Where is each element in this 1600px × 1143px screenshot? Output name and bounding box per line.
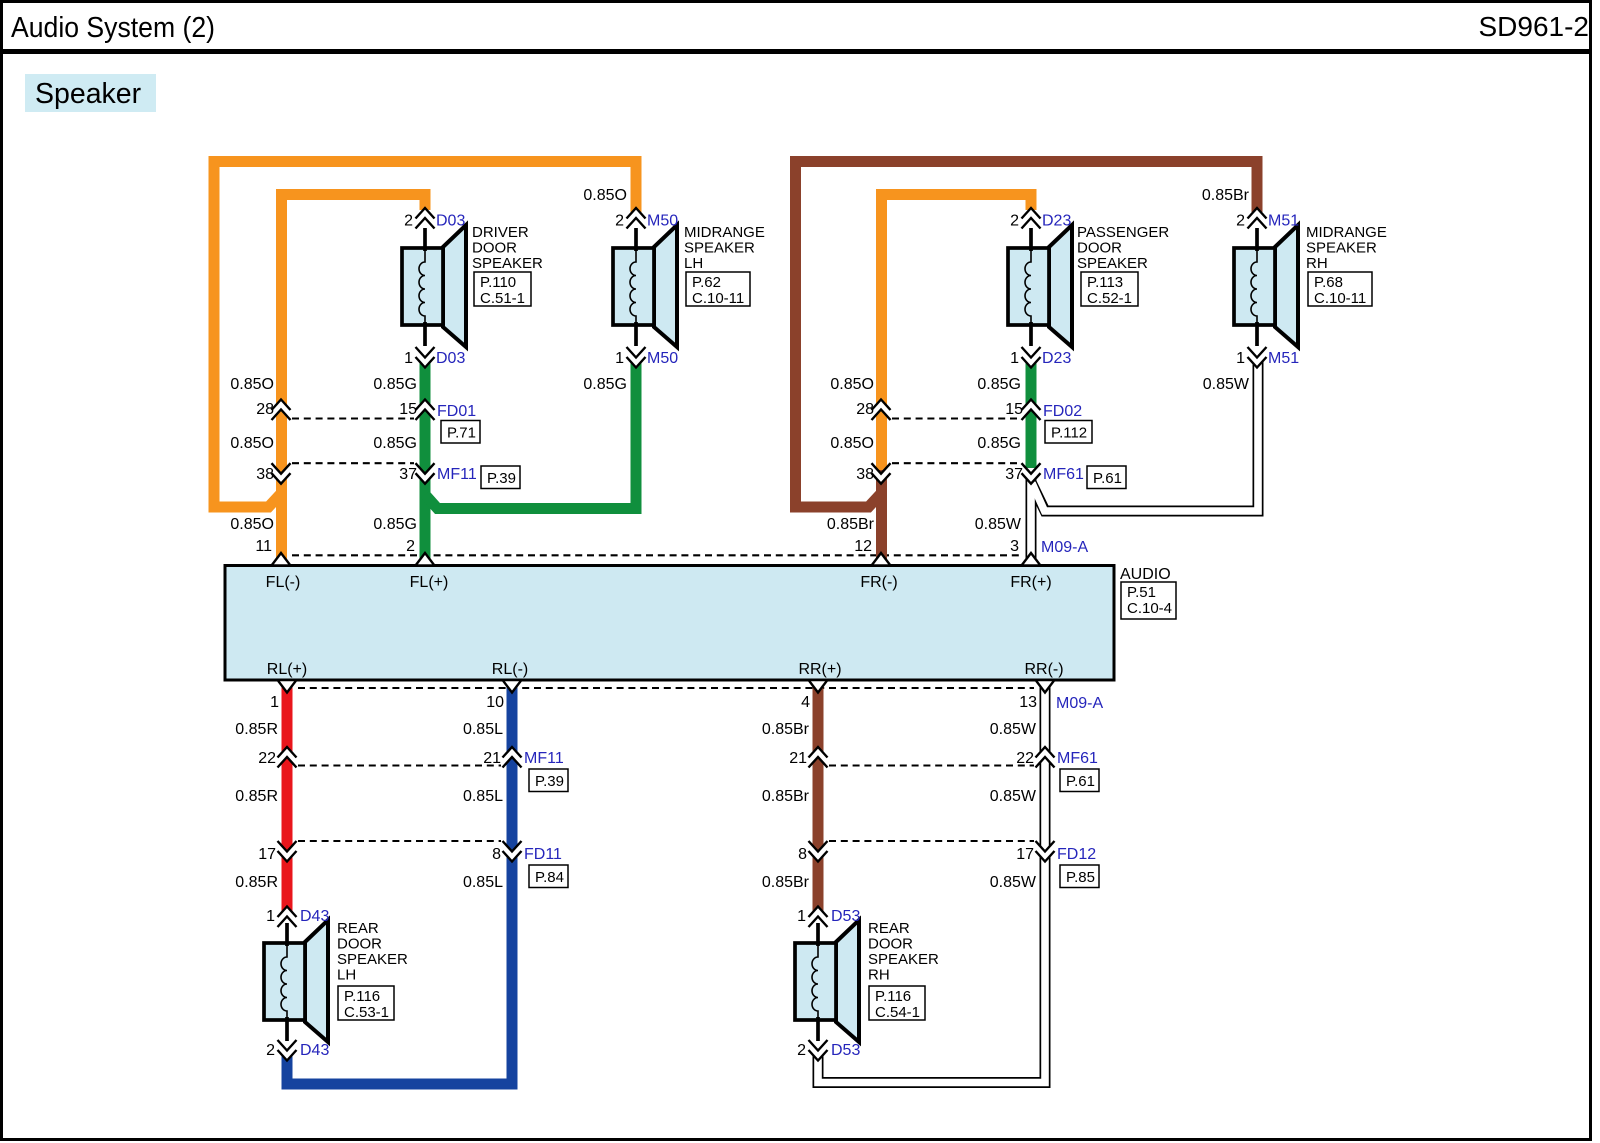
speaker D43 rear door LH (264, 920, 328, 1042)
dashed connector line MF11 row (top) (292, 462, 414, 464)
connector FD02 pin 28 (872, 400, 891, 421)
svg-text:RR(+): RR(+) (798, 661, 841, 678)
svg-text:FR(-): FR(-) (860, 574, 897, 591)
svg-text:D43: D43 (300, 908, 329, 925)
svg-text:P.84: P.84 (535, 869, 564, 886)
svg-text:RH: RH (868, 967, 890, 984)
reference box P.116 C.53-1 (338, 986, 394, 1020)
wire 0.85O inner D03 pin2 to FL(-) pin11 (282, 195, 426, 566)
svg-text:D23: D23 (1042, 213, 1071, 230)
svg-text:Speaker: Speaker (35, 78, 142, 110)
svg-text:0.85W: 0.85W (990, 788, 1037, 805)
svg-text:P.112: P.112 (1051, 425, 1087, 442)
svg-text:0.85L: 0.85L (463, 874, 503, 891)
reference box P.61 (top) (1087, 466, 1126, 489)
svg-text:P.51: P.51 (1127, 584, 1156, 601)
svg-text:REAR: REAR (868, 920, 910, 937)
connector M50 pin 1 (627, 347, 646, 368)
svg-text:P.61: P.61 (1093, 470, 1122, 487)
svg-text:28: 28 (256, 401, 274, 418)
svg-text:C.52-1: C.52-1 (1087, 290, 1132, 307)
svg-text:P.116: P.116 (875, 988, 911, 1005)
speaker D23 passenger door (1008, 225, 1072, 347)
svg-text:Audio System (2): Audio System (2) (11, 12, 215, 44)
connector MF61 pin 22 (1036, 747, 1055, 768)
svg-text:FD11: FD11 (524, 846, 562, 863)
svg-text:SPEAKER: SPEAKER (1077, 255, 1148, 272)
wire 0.85W loop M51 pin1 to MF61 pin37 (white core) (1032, 361, 1258, 512)
svg-text:3: 3 (1010, 538, 1019, 555)
svg-text:D03: D03 (436, 350, 465, 367)
svg-text:8: 8 (492, 846, 501, 863)
svg-text:0.85R: 0.85R (235, 788, 278, 805)
svg-text:P.110: P.110 (480, 274, 516, 291)
svg-text:FL(+): FL(+) (410, 574, 449, 591)
connector M51 pin 1 (1248, 347, 1267, 368)
wire 0.85G loop M50 pin1 to MF11 pin37 (425, 362, 636, 509)
svg-text:LH: LH (337, 967, 356, 984)
svg-text:0.85O: 0.85O (230, 435, 274, 452)
svg-text:0.85G: 0.85G (373, 516, 417, 533)
svg-text:D53: D53 (831, 1042, 860, 1059)
header separator line (0, 49, 1592, 54)
svg-text:C.10-11: C.10-11 (692, 290, 744, 307)
svg-text:M09-A: M09-A (1041, 539, 1088, 556)
connector D23 pin 2 (1022, 208, 1041, 229)
svg-text:0.85Br: 0.85Br (762, 788, 810, 805)
connector FD12 pin 8 (809, 841, 828, 862)
svg-text:0.85O: 0.85O (230, 376, 274, 393)
svg-text:1: 1 (1236, 350, 1245, 367)
svg-text:LH: LH (684, 255, 703, 272)
connector FD01 pin 28 (272, 400, 291, 421)
svg-text:0.85G: 0.85G (373, 376, 417, 393)
reference box P.68 C.10-11 (1308, 272, 1372, 306)
node M09-A pin 10 (503, 680, 522, 693)
svg-text:2: 2 (615, 213, 624, 230)
reference box P.113 C.52-1 (1081, 272, 1138, 306)
svg-text:SPEAKER: SPEAKER (1306, 240, 1377, 257)
reference box P.39 (top) (481, 466, 520, 489)
svg-text:2: 2 (797, 1042, 806, 1059)
section label Speaker (25, 74, 156, 112)
reference box P.116 C.54-1 (869, 986, 925, 1020)
svg-text:D03: D03 (436, 213, 465, 230)
svg-text:22: 22 (1016, 750, 1034, 767)
svg-text:1: 1 (615, 350, 624, 367)
svg-text:MIDRANGE: MIDRANGE (1306, 224, 1387, 241)
wire 0.85Br RR(+) pin4 to D53 pin1 (813, 681, 824, 913)
svg-text:2: 2 (1010, 213, 1019, 230)
wire 0.85L D43 pin2 to RL(-) pin10 (287, 681, 512, 1085)
dashed connector line MF61 row (bottom right) (829, 764, 1034, 766)
connector D03 pin 1 (416, 347, 435, 368)
svg-text:38: 38 (256, 466, 274, 483)
connector FD02 pin 15 (1022, 400, 1041, 421)
dashed connector line M09-A row (bottom) (298, 687, 1034, 689)
reference box P.85 (1060, 865, 1099, 888)
svg-text:0.85L: 0.85L (463, 788, 503, 805)
svg-text:0.85O: 0.85O (583, 187, 627, 204)
reference box P.39 (bottom) (529, 769, 568, 792)
wire 0.85W D53 pin2 to RR(-) pin13 (outline) (818, 681, 1045, 1083)
svg-text:0.85Br: 0.85Br (827, 516, 875, 533)
svg-text:FL(-): FL(-) (266, 574, 301, 591)
svg-text:0.85Br: 0.85Br (762, 874, 810, 891)
svg-text:1: 1 (797, 908, 806, 925)
connector M50 pin 2 (627, 208, 646, 229)
svg-text:D43: D43 (300, 1042, 329, 1059)
wire 0.85W loop M51 pin1 to MF61 pin37 (outline) (1031, 362, 1258, 511)
svg-text:M50: M50 (647, 213, 678, 230)
svg-text:SPEAKER: SPEAKER (472, 255, 543, 272)
svg-text:P.61: P.61 (1066, 773, 1095, 790)
dashed connector line FD11 row (298, 840, 501, 842)
svg-text:1: 1 (270, 694, 279, 711)
svg-text:15: 15 (399, 401, 417, 418)
connector MF61 pin 38 (872, 463, 891, 484)
svg-text:0.85W: 0.85W (990, 874, 1037, 891)
connector FD11 pin 8 (503, 841, 522, 862)
svg-text:AUDIO: AUDIO (1120, 566, 1171, 583)
reference box P.71 (441, 421, 480, 444)
svg-text:P.39: P.39 (487, 470, 516, 487)
svg-text:37: 37 (399, 466, 417, 483)
speaker D53 rear door RH (795, 920, 859, 1042)
svg-text:C.53-1: C.53-1 (344, 1004, 389, 1021)
svg-text:17: 17 (1016, 846, 1034, 863)
svg-text:0.85G: 0.85G (977, 376, 1021, 393)
svg-text:C.51-1: C.51-1 (480, 290, 525, 307)
svg-text:21: 21 (483, 750, 501, 767)
svg-text:P.71: P.71 (447, 425, 476, 442)
dashed connector line M09-A row (top) (292, 554, 1020, 556)
svg-text:P.113: P.113 (1087, 274, 1123, 291)
svg-text:MF11: MF11 (524, 750, 564, 767)
svg-text:10: 10 (486, 694, 504, 711)
svg-text:RL(-): RL(-) (492, 661, 528, 678)
svg-text:DOOR: DOOR (337, 936, 382, 953)
svg-text:RL(+): RL(+) (267, 661, 307, 678)
svg-text:21: 21 (789, 750, 807, 767)
svg-text:MF61: MF61 (1057, 750, 1098, 767)
svg-text:PASSENGER: PASSENGER (1077, 224, 1169, 241)
svg-text:37: 37 (1005, 466, 1023, 483)
svg-text:MF61: MF61 (1043, 466, 1084, 483)
svg-text:DOOR: DOOR (1077, 240, 1122, 257)
connector D23 pin 1 (1022, 347, 1041, 368)
wire 0.85O outer loop M50 pin2 to MF11 pin38 (214, 162, 636, 508)
svg-text:D23: D23 (1042, 350, 1071, 367)
svg-text:8: 8 (798, 846, 807, 863)
connector MF61 pin 37 (1022, 463, 1041, 484)
svg-text:SPEAKER: SPEAKER (684, 240, 755, 257)
svg-text:0.85Br: 0.85Br (1202, 187, 1250, 204)
svg-text:RH: RH (1306, 255, 1328, 272)
dashed connector line MF11 row (bottom left) (298, 764, 501, 766)
svg-text:0.85L: 0.85L (463, 721, 503, 738)
dashed connector line MF61 row (top) (892, 462, 1018, 464)
connector MF11 pin 37 (416, 463, 435, 484)
wire 0.85G D23 pin1 to MF61 pin37 (1026, 362, 1037, 470)
speaker M50 midrange LH (613, 225, 677, 347)
audio unit reference box P.51 C.10-4 (1121, 582, 1176, 619)
node M09-A pin 4 (809, 680, 828, 693)
svg-text:2: 2 (404, 213, 413, 230)
wire 0.85W D53 pin2 to RR(-) pin13 (white core) (818, 681, 1045, 1083)
svg-text:P.68: P.68 (1314, 274, 1343, 291)
svg-text:4: 4 (801, 694, 810, 711)
connector FD11 pin 17 (278, 841, 297, 862)
reference box P.84 (529, 865, 568, 888)
svg-text:0.85G: 0.85G (977, 435, 1021, 452)
svg-text:1: 1 (404, 350, 413, 367)
connector D03 pin 2 (416, 208, 435, 229)
svg-text:0.85W: 0.85W (975, 516, 1022, 533)
svg-text:FD01: FD01 (437, 403, 476, 420)
svg-text:38: 38 (856, 466, 874, 483)
svg-text:0.85Br: 0.85Br (762, 721, 810, 738)
svg-text:DRIVER: DRIVER (472, 224, 529, 241)
svg-text:FR(+): FR(+) (1010, 574, 1051, 591)
wire 0.85W MF61 pin37 to FR(+) pin3 (outline) (1026, 470, 1037, 565)
svg-text:0.85W: 0.85W (1203, 376, 1250, 393)
connector MF11 pin 38 (272, 463, 291, 484)
svg-text:12: 12 (854, 538, 872, 555)
reference box P.112 (1045, 421, 1092, 444)
svg-text:RR(-): RR(-) (1024, 661, 1063, 678)
svg-text:P.39: P.39 (535, 773, 564, 790)
wire 0.85O inner D23 pin2 toward FD02/MF61 (882, 195, 1032, 471)
reference box P.110 C.51-1 (474, 272, 531, 306)
svg-text:SPEAKER: SPEAKER (868, 951, 939, 968)
connector MF11 pin 21 (503, 747, 522, 768)
svg-text:22: 22 (258, 750, 276, 767)
node M09-A pin 13 (1036, 680, 1055, 693)
svg-text:P.116: P.116 (344, 988, 380, 1005)
svg-text:C.54-1: C.54-1 (875, 1004, 920, 1021)
svg-text:0.85G: 0.85G (583, 376, 627, 393)
svg-text:C.10-4: C.10-4 (1127, 600, 1172, 617)
svg-text:MIDRANGE: MIDRANGE (684, 224, 765, 241)
svg-text:D53: D53 (831, 908, 860, 925)
svg-text:0.85G: 0.85G (373, 435, 417, 452)
svg-text:0.85W: 0.85W (990, 721, 1037, 738)
reference box P.61 (bottom) (1060, 769, 1099, 792)
svg-text:15: 15 (1005, 401, 1023, 418)
connector MF11 pin 22 (278, 747, 297, 768)
svg-text:P.62: P.62 (692, 274, 721, 291)
svg-text:SPEAKER: SPEAKER (337, 951, 408, 968)
wire 0.85G D03 pin1 to FL(+) pin2 (420, 362, 431, 565)
svg-text:M51: M51 (1268, 350, 1299, 367)
connector M51 pin 2 (1248, 208, 1267, 229)
svg-text:SD961-2: SD961-2 (1478, 11, 1589, 42)
svg-text:P.85: P.85 (1066, 869, 1095, 886)
svg-text:11: 11 (255, 538, 272, 555)
svg-text:DOOR: DOOR (472, 240, 517, 257)
dashed connector line FD01 row (292, 417, 414, 419)
connector D53 pin 1 (809, 907, 828, 928)
wire 0.85Br MF61 pin38 to FR(-) pin12 (876, 470, 887, 565)
svg-text:17: 17 (258, 846, 276, 863)
svg-text:28: 28 (856, 401, 874, 418)
svg-text:2: 2 (266, 1042, 275, 1059)
svg-text:M50: M50 (647, 350, 678, 367)
svg-text:0.85O: 0.85O (230, 516, 274, 533)
audio unit box (225, 566, 1114, 681)
svg-text:1: 1 (266, 908, 275, 925)
svg-text:M09-A: M09-A (1056, 695, 1103, 712)
node M09-A pin 1 (278, 680, 297, 693)
dashed connector line FD02 row (892, 417, 1018, 419)
svg-text:FD02: FD02 (1043, 403, 1082, 420)
svg-text:MF11: MF11 (437, 466, 477, 483)
connector FD01 pin 15 (416, 400, 435, 421)
wire 0.85Br outer loop M51 pin2 to MF61 pin38 (796, 162, 1258, 508)
svg-text:DOOR: DOOR (868, 936, 913, 953)
speaker D03 driver door (402, 225, 466, 347)
svg-text:2: 2 (406, 538, 415, 555)
connector D53 pin 2 (809, 1040, 828, 1061)
wire 0.85W MF61 pin37 to FR(+) pin3 (white core) (1027, 468, 1035, 565)
reference box P.62 C.10-11 (686, 272, 750, 306)
wire 0.85R RL(+) pin1 to D43 pin1 (282, 681, 293, 913)
connector MF61 pin 21 (809, 747, 828, 768)
svg-text:13: 13 (1019, 694, 1037, 711)
svg-text:0.85R: 0.85R (235, 874, 278, 891)
speaker M51 midrange RH (1234, 225, 1298, 347)
connector D43 pin 2 (278, 1040, 297, 1061)
connector FD12 pin 17 (1036, 841, 1055, 862)
svg-text:0.85R: 0.85R (235, 721, 278, 738)
connector D43 pin 1 (278, 907, 297, 928)
svg-text:REAR: REAR (337, 920, 379, 937)
svg-text:2: 2 (1236, 213, 1245, 230)
svg-text:1: 1 (1010, 350, 1019, 367)
dashed connector line FD12 row (829, 840, 1034, 842)
svg-text:M51: M51 (1268, 213, 1299, 230)
svg-text:0.85O: 0.85O (830, 435, 874, 452)
svg-text:FD12: FD12 (1057, 846, 1096, 863)
svg-text:C.10-11: C.10-11 (1314, 290, 1366, 307)
svg-text:0.85O: 0.85O (830, 376, 874, 393)
